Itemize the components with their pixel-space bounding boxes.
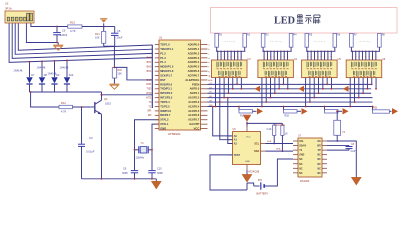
svg-text:SDA: SDA bbox=[254, 150, 259, 153]
wire control bus lines to shift registers bbox=[208, 83, 372, 85]
svg-text:RXD/P3.0: RXD/P3.0 bbox=[160, 82, 172, 86]
pin 24 bbox=[201, 57, 208, 59]
svg-text:NC: NC bbox=[299, 168, 303, 170]
svg-text:C6: C6 bbox=[117, 29, 121, 33]
pin TEST bbox=[228, 154, 233, 156]
pin 23 bbox=[201, 52, 208, 54]
svg-text:A11/P2.3: A11/P2.3 bbox=[188, 100, 200, 104]
svg-text:GND: GND bbox=[245, 161, 250, 163]
svg-text:SDA/V: SDA/V bbox=[299, 145, 306, 148]
svg-text:AD0/P0.0: AD0/P0.0 bbox=[188, 43, 200, 47]
svg-text:C3: C3 bbox=[89, 136, 93, 140]
wire A1 net bbox=[220, 102, 233, 140]
capacitor C10 30PF bbox=[148, 170, 155, 172]
pin 20 bbox=[155, 128, 159, 130]
resistor R10 2.2K bbox=[273, 123, 275, 125]
cascade arrow bbox=[299, 86, 305, 92]
resistor R14 10K bbox=[103, 27, 105, 32]
pin 4 bbox=[293, 154, 298, 156]
svg-text:A15/P2.7: A15/P2.7 bbox=[188, 118, 200, 122]
wire A0 net bbox=[213, 106, 233, 135]
svg-text:NC: NC bbox=[317, 159, 321, 161]
svg-text:INT1: INT1 bbox=[146, 96, 152, 99]
svg-text:A13/P2.5: A13/P2.5 bbox=[188, 109, 200, 113]
ground arrow below EEPROM bbox=[242, 174, 252, 182]
wire net line A bbox=[18, 23, 152, 50]
svg-text:WR/P3.6: WR/P3.6 bbox=[160, 109, 171, 113]
svg-text:TXD: TXD bbox=[147, 88, 152, 91]
resistor R12 4.7K bbox=[59, 105, 73, 108]
pin 13 bbox=[155, 97, 159, 99]
pin A0 bbox=[228, 135, 233, 137]
svg-text:BH1: BH1 bbox=[147, 57, 152, 60]
wire collector net to MCU bbox=[102, 92, 153, 95]
pin 14 bbox=[322, 163, 327, 165]
pin 17 bbox=[155, 114, 159, 116]
pin 5 bbox=[293, 158, 298, 160]
pin 3 bbox=[155, 52, 159, 54]
pin 32 bbox=[201, 92, 208, 94]
svg-text:WR: WR bbox=[147, 110, 151, 113]
svg-text:AT89S51: AT89S51 bbox=[168, 132, 181, 136]
svg-text:SH: SH bbox=[209, 96, 212, 98]
svg-text:AD6/P0.6: AD6/P0.6 bbox=[188, 69, 200, 73]
svg-text:PSEN: PSEN bbox=[192, 82, 199, 86]
svg-text:R13: R13 bbox=[70, 21, 75, 25]
pin 33 bbox=[201, 97, 208, 99]
wire bottom ground rail bbox=[82, 178, 157, 180]
svg-text:NC: NC bbox=[317, 155, 321, 157]
svg-text:BH4: BH4 bbox=[147, 70, 152, 73]
pin 1 bbox=[155, 44, 159, 46]
svg-text:T1/P3.5: T1/P3.5 bbox=[160, 104, 170, 108]
svg-text:DS1302: DS1302 bbox=[300, 179, 310, 183]
capacitor C9 30PF bbox=[131, 170, 138, 172]
svg-text:VCC: VCC bbox=[246, 137, 251, 139]
wire serial pins to bus bbox=[215, 78, 217, 107]
svg-text:10uF: 10uF bbox=[117, 36, 123, 40]
pin 21 bbox=[201, 44, 208, 46]
pin 40 bbox=[201, 128, 208, 130]
wire serial pins to bus bbox=[349, 78, 351, 107]
ground of C5 bbox=[57, 43, 59, 46]
pin 6 bbox=[293, 163, 298, 165]
wire TEST net bbox=[210, 155, 247, 190]
wire reset column bbox=[113, 46, 115, 67]
svg-text:a b c d e f g: a b c d e f g bbox=[224, 41, 236, 43]
resistor with power arrow bbox=[283, 106, 285, 111]
resistor R6 bbox=[334, 32, 336, 34]
svg-text:SCL: SCL bbox=[299, 141, 304, 143]
resistor R8 bbox=[378, 32, 380, 34]
svg-text:U2: U2 bbox=[5, 2, 9, 6]
pin 28 bbox=[201, 75, 208, 77]
pin 13 bbox=[322, 158, 327, 160]
pin 12 bbox=[322, 154, 327, 156]
svg-text:A8/P2.0: A8/P2.0 bbox=[190, 87, 200, 91]
svg-text:Y1: Y1 bbox=[141, 141, 145, 145]
svg-text:120nF: 120nF bbox=[60, 33, 68, 37]
cascade arrow bbox=[343, 86, 349, 92]
svg-text:NC: NC bbox=[317, 173, 321, 175]
pin 12 bbox=[155, 92, 159, 94]
diode D7 1N4148 bbox=[29, 62, 31, 77]
svg-text:LED: LED bbox=[274, 15, 295, 26]
wire serial pins to bus bbox=[261, 78, 263, 107]
diode D8 1N4148 bbox=[41, 61, 43, 77]
svg-text:BT1: BT1 bbox=[258, 180, 263, 182]
wire VCC rail to pullups bbox=[247, 122, 282, 124]
pin 10 bbox=[322, 145, 327, 147]
svg-text:P1.3: P1.3 bbox=[160, 56, 166, 60]
svg-text:NC: NC bbox=[317, 168, 321, 170]
pin 7 bbox=[155, 70, 159, 72]
svg-text:MISO/P1.6: MISO/P1.6 bbox=[160, 69, 174, 73]
svg-text:SDA: SDA bbox=[276, 148, 281, 151]
svg-text:a b c d e f g: a b c d e f g bbox=[314, 41, 326, 43]
svg-text:NC: NC bbox=[299, 173, 303, 175]
resistor with power arrow bbox=[238, 106, 240, 111]
pin 9 bbox=[322, 140, 327, 142]
resistor R4 bbox=[290, 32, 292, 34]
capacitor C6 10uF bbox=[104, 26, 115, 28]
wire XTAL2 bbox=[135, 120, 160, 170]
svg-text:AD2/P0.2: AD2/P0.2 bbox=[188, 51, 200, 55]
battery BT1 bbox=[247, 183, 254, 186]
svg-text:EA/VPP: EA/VPP bbox=[189, 122, 199, 126]
svg-text:ALE: ALE bbox=[208, 79, 213, 82]
svg-text:TEST: TEST bbox=[234, 154, 241, 157]
svg-text:1N4148: 1N4148 bbox=[60, 66, 69, 69]
pin 16 bbox=[322, 172, 327, 174]
svg-text:AD7/P0.7: AD7/P0.7 bbox=[188, 73, 200, 77]
svg-text:4.7K: 4.7K bbox=[61, 110, 67, 114]
svg-text:RST: RST bbox=[147, 79, 152, 82]
pin 30 bbox=[201, 83, 208, 85]
wire net line D (diode anodes) bbox=[9, 23, 152, 62]
ground arrow bottom right bbox=[351, 177, 361, 185]
svg-text:1K: 1K bbox=[285, 133, 288, 136]
pin 35 bbox=[201, 105, 208, 107]
svg-text:NC: NC bbox=[317, 164, 321, 166]
pin 18 bbox=[155, 119, 159, 121]
svg-text:VCC: VCC bbox=[194, 126, 200, 130]
wire segment lines up to display resistors bbox=[307, 51, 309, 60]
svg-text:TXD/P3.1: TXD/P3.1 bbox=[160, 87, 172, 91]
pin 4 bbox=[155, 57, 159, 59]
pin 6 bbox=[155, 66, 159, 68]
resistor R11b 1K bbox=[281, 123, 283, 125]
pin 29 bbox=[201, 79, 208, 81]
svg-text:INT: INT bbox=[317, 146, 321, 148]
svg-text:RD/P3.7: RD/P3.7 bbox=[160, 113, 171, 117]
svg-text:MOSI/P1.5: MOSI/P1.5 bbox=[160, 65, 174, 69]
svg-text:30PF: 30PF bbox=[157, 172, 163, 175]
svg-text:A12/P2.4: A12/P2.4 bbox=[188, 104, 200, 108]
wire A2 net bbox=[228, 98, 233, 144]
EEPROM U6 AT24C08 bbox=[233, 132, 261, 165]
cascade arrow bbox=[255, 86, 261, 92]
svg-text:AD3/P0.3: AD3/P0.3 bbox=[188, 56, 200, 60]
svg-text:a b c d e f g: a b c d e f g bbox=[358, 41, 370, 43]
svg-text:SCL: SCL bbox=[254, 143, 259, 146]
pin 11 bbox=[155, 88, 159, 90]
svg-text:A9/P2.1: A9/P2.1 bbox=[190, 91, 200, 95]
pin SCL bbox=[261, 143, 266, 145]
pin 31 bbox=[201, 88, 208, 90]
svg-text:NC: NC bbox=[299, 159, 303, 161]
pin 26 bbox=[201, 66, 208, 68]
pin 15 bbox=[155, 105, 159, 107]
pin 1 bbox=[293, 140, 298, 142]
wire segment lines up to display resistors bbox=[217, 51, 219, 60]
pin 8 bbox=[155, 75, 159, 77]
pin 34 bbox=[201, 101, 208, 103]
svg-text:RD: RD bbox=[148, 114, 152, 117]
svg-text:D10: D10 bbox=[69, 74, 74, 77]
svg-text:BATTERY: BATTERY bbox=[257, 192, 269, 196]
svg-text:A10/P2.2: A10/P2.2 bbox=[188, 96, 200, 100]
wire SCL net bbox=[266, 143, 294, 145]
wire segment lines up to display resistors bbox=[351, 51, 353, 60]
capacitor C3 0.01uF bbox=[81, 107, 83, 144]
svg-text:T0/P3.4: T0/P3.4 bbox=[160, 100, 170, 104]
svg-text:C5: C5 bbox=[62, 29, 66, 33]
resistor R5 bbox=[306, 32, 308, 34]
pin A1 bbox=[228, 139, 233, 141]
svg-text:1815: 1815 bbox=[105, 101, 111, 105]
svg-text:JP1A: JP1A bbox=[5, 6, 12, 10]
pin SDA bbox=[261, 150, 266, 152]
shift register U4 74HC595 bbox=[258, 60, 294, 78]
svg-text:R11: R11 bbox=[373, 106, 378, 109]
pin 38 bbox=[201, 119, 208, 121]
svg-text:AT24C08: AT24C08 bbox=[248, 169, 260, 173]
svg-text:AD4/P0.4: AD4/P0.4 bbox=[188, 60, 200, 64]
RTC U7 DS1302 bbox=[298, 138, 322, 177]
svg-text:AD5/P0.5: AD5/P0.5 bbox=[188, 65, 200, 69]
svg-text:R12: R12 bbox=[61, 101, 66, 105]
resistor R2 bbox=[244, 32, 246, 34]
svg-text:T2EX/P1.1: T2EX/P1.1 bbox=[160, 47, 174, 51]
connector U2 JP1A bbox=[5, 11, 34, 23]
pin 8 bbox=[293, 172, 298, 174]
resistor R13 4.7K bbox=[68, 25, 82, 28]
svg-text:10K: 10K bbox=[95, 37, 100, 40]
resistor with power arrow bbox=[324, 106, 326, 111]
ground below R16 bbox=[109, 84, 119, 89]
wire C8 bottom bbox=[327, 149, 349, 151]
svg-text:RXD: RXD bbox=[146, 83, 151, 86]
pin 25 bbox=[201, 61, 208, 63]
svg-text:C10: C10 bbox=[157, 167, 162, 170]
svg-text:GK: GK bbox=[317, 141, 321, 143]
bus entry line left of MCU bbox=[151, 45, 153, 108]
wire net line B bbox=[15, 23, 152, 54]
VCC power symbol bbox=[100, 19, 107, 23]
svg-text:RST: RST bbox=[160, 78, 166, 82]
svg-text:T2/P1.0: T2/P1.0 bbox=[160, 43, 170, 47]
diode D10 1N4148 bbox=[66, 60, 68, 77]
svg-text:2.2K: 2.2K bbox=[267, 128, 272, 131]
resistor R1 bbox=[216, 32, 218, 34]
svg-text:GND: GND bbox=[299, 155, 304, 157]
svg-text:BH2: BH2 bbox=[147, 61, 152, 64]
pin 2 bbox=[293, 145, 298, 147]
crystal Y2 bbox=[336, 110, 338, 112]
wire net line gnd (C5 tie) bbox=[26, 23, 58, 43]
pin 2 bbox=[155, 48, 159, 50]
pin 7 bbox=[293, 167, 298, 169]
pin 3 bbox=[293, 149, 298, 151]
resistor R11 bbox=[372, 106, 374, 111]
pin GND bbox=[246, 165, 248, 170]
svg-text:P1.4: P1.4 bbox=[160, 60, 166, 64]
wire segment lines up to display resistors bbox=[263, 51, 265, 60]
wire SDA net bbox=[266, 150, 294, 152]
crystal Y1 12MHz bbox=[135, 149, 139, 151]
pin 27 bbox=[201, 70, 208, 72]
pin 37 bbox=[201, 114, 208, 116]
pin 19 bbox=[155, 123, 159, 125]
svg-text:R18: R18 bbox=[285, 115, 290, 118]
pin 14 bbox=[155, 101, 159, 103]
svg-text:1N4148: 1N4148 bbox=[37, 66, 46, 69]
pin 9 bbox=[155, 79, 159, 81]
wire to base resistor R12 bbox=[31, 92, 59, 107]
pin 11 bbox=[322, 149, 327, 151]
capacitor C8 CAP bbox=[327, 145, 349, 147]
svg-text:INT0/P3.2: INT0/P3.2 bbox=[160, 91, 173, 95]
svg-text:a b c d e f g: a b c d e f g bbox=[270, 41, 282, 43]
shift register U3 74HC595 bbox=[212, 60, 248, 78]
svg-text:NC: NC bbox=[299, 164, 303, 166]
resistor R7 bbox=[350, 32, 352, 34]
capacitor C5 120nF bbox=[56, 27, 58, 33]
wire net line C bbox=[12, 23, 152, 58]
wire net line VCC top bbox=[31, 23, 68, 27]
resistor R3 bbox=[262, 32, 264, 34]
svg-text:GND: GND bbox=[160, 126, 166, 130]
pin 5 bbox=[155, 61, 159, 63]
pin 15 bbox=[322, 167, 327, 169]
pin 22 bbox=[201, 48, 208, 50]
shift register U6 74HC595 bbox=[346, 60, 382, 78]
wire reset to MCU RST bbox=[114, 67, 152, 80]
VCC arrow feeding EEPROM bbox=[243, 116, 251, 122]
MCU U1 AT89S51 bbox=[159, 40, 201, 130]
svg-text:CAP: CAP bbox=[351, 150, 356, 153]
svg-text:INT1/P3.3: INT1/P3.3 bbox=[160, 96, 173, 100]
pin 16 bbox=[155, 110, 159, 112]
svg-text:A14/P2.6: A14/P2.6 bbox=[188, 113, 200, 117]
wire diode cathode bus bbox=[30, 91, 102, 93]
svg-text:10K: 10K bbox=[118, 73, 123, 76]
diode D9 1N4148 bbox=[54, 61, 56, 77]
wire RTC pin row 1 to ground bbox=[327, 141, 356, 177]
resistor R16 10K bbox=[112, 68, 116, 78]
pin 39 bbox=[201, 123, 208, 125]
wire serial pins to bus bbox=[305, 78, 307, 107]
LED display panel box bbox=[211, 8, 398, 34]
pin A2 bbox=[228, 143, 233, 145]
svg-text:0.01uF: 0.01uF bbox=[86, 150, 95, 154]
svg-text:INT0: INT0 bbox=[146, 92, 152, 95]
shift register U5 74HC595 bbox=[302, 60, 338, 78]
pin VCC bbox=[246, 127, 248, 132]
transistor Q4 C1815 bbox=[94, 102, 96, 113]
svg-text:SCK/P1.7: SCK/P1.7 bbox=[160, 73, 172, 77]
ground arrow below crystal bbox=[151, 181, 161, 189]
svg-text:XTAL1: XTAL1 bbox=[160, 122, 169, 126]
svg-text:R10 R11: R10 R11 bbox=[276, 124, 286, 127]
svg-text:ALE/PROG: ALE/PROG bbox=[185, 78, 199, 82]
svg-text:1N4148: 1N4148 bbox=[14, 70, 23, 73]
svg-text:4.7K: 4.7K bbox=[70, 29, 76, 33]
svg-text:SLA: SLA bbox=[267, 140, 272, 143]
svg-text:U1: U1 bbox=[159, 36, 163, 40]
pin 36 bbox=[201, 110, 208, 112]
svg-text:XTAL2: XTAL2 bbox=[160, 118, 169, 122]
wire XTAL1 bbox=[152, 124, 159, 170]
svg-text:P1.2: P1.2 bbox=[160, 51, 166, 55]
svg-text:AD1/P0.1: AD1/P0.1 bbox=[188, 47, 200, 51]
svg-text:12MHz: 12MHz bbox=[136, 156, 145, 160]
svg-text:BH3: BH3 bbox=[147, 66, 152, 69]
pin 10 bbox=[155, 83, 159, 85]
svg-text:30PF: 30PF bbox=[122, 172, 128, 175]
